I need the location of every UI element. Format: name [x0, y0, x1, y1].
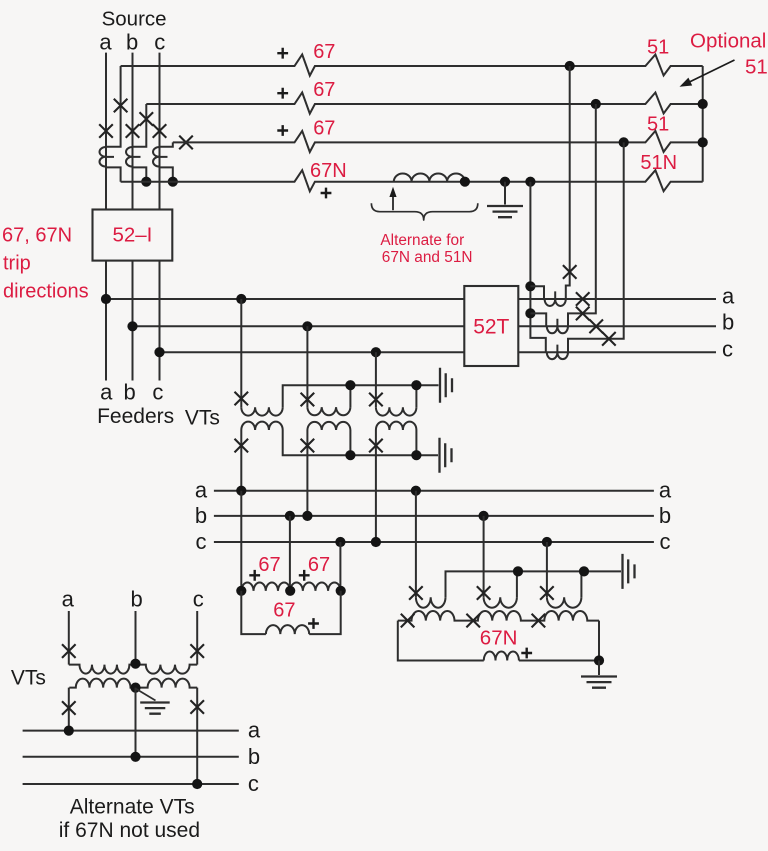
wire CT-a 52T right lead / dropper to 51-a — [566, 66, 570, 299]
svg-text:c: c — [660, 529, 671, 554]
node bus c at breaker — [154, 347, 164, 357]
polarity X phase a — [99, 124, 113, 138]
polarity X broken-delta 1 — [401, 614, 415, 628]
svg-text:51N: 51N — [640, 152, 677, 174]
svg-text:52T: 52T — [473, 316, 509, 339]
node 51-c tap — [619, 137, 629, 147]
node sec bus a 67N lead — [411, 486, 421, 496]
node 52T CT bus tap — [525, 177, 535, 187]
wire auxVT-c lead — [546, 542, 548, 597]
wire CT-a 52T left lead — [530, 286, 544, 299]
wire 67N ground stem — [504, 182, 506, 205]
polarity X 52T CT-b lead — [576, 307, 590, 321]
node VT-b primary neutral — [345, 380, 355, 390]
svg-text:directions: directions — [3, 281, 89, 303]
svg-text:b: b — [126, 30, 138, 55]
node 51-b tap — [591, 99, 601, 109]
svg-text:51: 51 — [647, 113, 669, 135]
plus polarity 67 phase-b — [277, 88, 288, 99]
wire 67coil lead a — [240, 491, 242, 591]
wire 67coil lead c — [339, 542, 341, 591]
auxVT-a primary winding — [416, 597, 446, 608]
wire right return bus — [702, 66, 704, 182]
wire CT-c 52T right lead / dropper to 51-c — [568, 142, 624, 352]
node 67coil b — [285, 586, 295, 596]
wire auxVT-a lead — [415, 491, 417, 598]
ground VT primary neutral — [440, 368, 452, 403]
altVT secondary winding — [69, 679, 197, 688]
polarity X 52T CT-a lead — [563, 265, 577, 279]
polarity X on 67 phase-c line — [179, 136, 193, 150]
plus polarity 67N — [321, 188, 332, 199]
svg-text:c: c — [196, 529, 207, 554]
svg-text:b: b — [130, 587, 142, 612]
node VT-c primary neutral — [411, 380, 421, 390]
polarity X altVT-a primary — [62, 644, 76, 658]
polarity X altVT-c secondary — [190, 700, 204, 714]
node sec bus b VT lead — [302, 511, 312, 521]
svg-text:b: b — [195, 503, 207, 528]
polarity X phase b — [126, 124, 140, 138]
wire CT-a return lead — [106, 167, 121, 181]
wire CT-c return lead — [160, 167, 173, 181]
ground auxVT neutral — [623, 554, 635, 589]
wire 67 phase-a circuit with relay 67 contact — [121, 55, 703, 76]
node altVT secondary mid — [130, 683, 140, 693]
plus polarity 67 phase-c — [277, 125, 288, 136]
svg-text:if 67N not used: if 67N not used — [59, 819, 200, 842]
node 52T CT bus upper — [525, 281, 535, 291]
wire phase b conductor — [132, 53, 134, 381]
node sec bus c 67N lead — [542, 537, 552, 547]
wire VT-a secondary lead — [240, 430, 242, 491]
node 67coil a — [236, 586, 246, 596]
wire VT-b primary lead — [306, 326, 308, 407]
polarity X altVT-c primary — [190, 644, 204, 658]
svg-text:67: 67 — [313, 41, 335, 63]
CT phase c (52T) — [547, 345, 568, 360]
wire altVT ground slant — [136, 689, 156, 701]
svg-text:b: b — [248, 744, 260, 769]
node sec bus c VT lead — [371, 537, 381, 547]
VT phase a primary winding — [241, 407, 282, 415]
svg-text:Feeders: Feeders — [97, 405, 174, 428]
svg-text:a: a — [659, 478, 672, 503]
svg-text:67: 67 — [313, 79, 335, 101]
alternate toroidal CT coil — [394, 174, 465, 182]
CT phase a (52T) — [545, 291, 566, 306]
wire 52T CT return bus — [530, 182, 545, 353]
wire altVT-b lead — [135, 611, 137, 663]
wire VT secondary neutral — [283, 430, 438, 455]
wire phase a conductor — [105, 53, 107, 381]
polarity X auxVT-b — [477, 586, 491, 600]
wire altVT sec c lead — [196, 688, 198, 784]
svg-text:52–I: 52–I — [112, 224, 152, 247]
svg-text:a: a — [722, 284, 735, 309]
svg-text:a: a — [100, 380, 113, 405]
wire bus b — [133, 325, 717, 327]
coil 67 ca — [266, 625, 309, 634]
VT phase c primary winding — [376, 407, 417, 415]
arrow polarity (alternate coil) — [392, 193, 394, 211]
plus 67N coil — [521, 648, 532, 659]
wire secondary bus c — [214, 541, 654, 543]
svg-text:c: c — [722, 337, 733, 362]
wire VT-a primary lead — [240, 299, 242, 407]
svg-text:67, 67N: 67, 67N — [2, 225, 72, 247]
polarity X bus b — [589, 320, 603, 334]
svg-text:a: a — [62, 587, 75, 612]
svg-text:a: a — [195, 478, 208, 503]
node VT tap c — [371, 347, 381, 357]
svg-text:67N: 67N — [310, 160, 347, 182]
polarity X bus a — [576, 292, 590, 306]
wire CT-b 52T left lead — [530, 313, 546, 326]
node sec bus b 67N lead — [479, 511, 489, 521]
wire 67N residual circuit with relay 67N — [121, 170, 703, 191]
wire secondary bus a — [214, 490, 654, 492]
node 51-a tap — [565, 61, 575, 71]
svg-text:67: 67 — [258, 554, 280, 576]
polarity X phase c — [153, 124, 167, 138]
auxVT broken-delta secondary windings — [398, 611, 599, 621]
node alt bus b — [130, 752, 140, 762]
wire broken-delta ground stem — [598, 661, 600, 676]
svg-text:67: 67 — [308, 554, 330, 576]
node alt bus c — [192, 779, 202, 789]
wire CT-b return lead — [133, 167, 147, 181]
svg-text:b: b — [659, 503, 671, 528]
auxVT-c primary winding — [547, 597, 582, 608]
CT phase b (52T) — [547, 319, 568, 334]
CT phase a (52-I) — [99, 147, 114, 167]
svg-text:b: b — [123, 380, 135, 405]
plus polarity 67 phase-a — [277, 48, 288, 59]
node VT-b secondary neutral — [345, 450, 355, 460]
svg-text:67N: 67N — [480, 627, 518, 650]
polarity X VT-c primary — [369, 393, 383, 407]
altVT primary winding — [69, 665, 197, 674]
node 67N ground tap — [500, 177, 510, 187]
wire CT-b 52T right lead / dropper to 51-b — [568, 104, 596, 326]
svg-text:51: 51 — [647, 36, 669, 58]
node sec bus c 67coil lead — [335, 537, 345, 547]
svg-text:VTs: VTs — [185, 407, 220, 430]
wire alt bus b — [23, 756, 239, 758]
plus 67coil bc — [299, 570, 310, 581]
VT phase c secondary winding — [376, 422, 417, 430]
node altVT primary mid — [130, 659, 140, 669]
plus 67coil ca — [308, 618, 319, 629]
node 67coil c — [336, 586, 346, 596]
polarity X CT-b lead — [140, 112, 154, 126]
plus 67coil ab — [249, 570, 260, 581]
wire VT primary neutral — [283, 385, 439, 407]
wire phase c conductor — [159, 53, 161, 381]
svg-text:c: c — [154, 30, 165, 55]
breaker 52-I box — [93, 210, 173, 261]
auxVT-b primary winding — [484, 597, 517, 608]
wire auxVT neutral link — [446, 571, 622, 597]
svg-text:a: a — [99, 30, 112, 55]
node alt bus a — [64, 726, 74, 736]
wire 67 phase-b circuit with relay 67 contact — [146, 93, 702, 114]
svg-text:trip: trip — [3, 253, 31, 275]
polarity X broken-delta 3 — [532, 614, 546, 628]
wire VT-b secondary lead — [306, 430, 308, 516]
wire VT-c primary lead — [375, 352, 377, 407]
wire 67 phase-c circuit with relay 67 contact — [173, 131, 703, 152]
node broken-delta ground — [594, 655, 604, 665]
svg-text:a: a — [248, 718, 261, 743]
wire CT-b secondary lead to 67 line — [133, 104, 147, 147]
svg-text:Alternate for: Alternate for — [380, 232, 464, 249]
svg-text:51: 51 — [745, 55, 768, 78]
polarity X VT-b primary — [301, 393, 315, 407]
svg-text:67: 67 — [273, 600, 295, 622]
VT phase b primary winding — [307, 407, 350, 415]
polarity X 52T CT-c lead — [602, 332, 616, 346]
svg-text:c: c — [193, 587, 204, 612]
svg-text:Alternate VTs: Alternate VTs — [70, 795, 195, 818]
ground on 67N circuit — [487, 206, 523, 217]
wire CT-c secondary lead to 67 line — [160, 142, 173, 146]
node sec bus b 67coil lead — [285, 511, 295, 521]
polarity X CT-a lead — [114, 99, 128, 113]
wire altVT-c lead — [196, 611, 198, 665]
node VT tap b — [302, 321, 312, 331]
CT phase b (52-I) — [126, 147, 141, 167]
node VT-c secondary neutral — [411, 450, 421, 460]
polarity X VT-a secondary — [235, 439, 249, 453]
node bus b at breaker — [127, 321, 137, 331]
node CT-c return junction — [168, 177, 178, 187]
node right bus at 67-c — [698, 137, 708, 147]
wire broken-delta loop — [398, 621, 599, 661]
svg-text:67: 67 — [313, 117, 335, 139]
wire bus a — [106, 298, 716, 300]
coil 67 bc — [290, 582, 341, 590]
node CT-b return junction — [141, 177, 151, 187]
polarity X auxVT-a — [409, 586, 423, 600]
ground VT secondary neutral — [440, 438, 452, 473]
wire auxVT-b lead — [483, 516, 485, 597]
VT phase a secondary winding — [241, 422, 282, 430]
node alternate coil right end — [460, 177, 470, 187]
polarity X VT-a primary — [235, 392, 249, 406]
polarity X broken-delta 2 — [466, 614, 480, 628]
coil 67 ab — [241, 582, 290, 590]
node bus a at breaker — [101, 294, 111, 304]
polarity X altVT-a secondary — [62, 701, 76, 715]
svg-text:c: c — [248, 771, 259, 796]
breaker 52T box — [464, 286, 518, 366]
wire altVT sec a lead — [68, 688, 70, 731]
wire alt bus a — [23, 730, 239, 732]
svg-text:VTs: VTs — [11, 667, 46, 690]
VT phase b secondary winding — [307, 422, 350, 430]
wire VT-c secondary lead — [375, 430, 377, 542]
node 52T CT bus lower — [525, 308, 535, 318]
ground altVT secondary — [140, 703, 170, 714]
polarity X VT-b secondary — [301, 439, 315, 453]
wire altVT-a lead — [68, 611, 70, 665]
wire CT-a secondary lead to 67 line — [106, 66, 121, 147]
wire bus c — [160, 351, 717, 353]
brace alternate note — [371, 203, 477, 220]
svg-text:Source: Source — [102, 8, 167, 31]
svg-text:Optional: Optional — [690, 29, 766, 52]
wire 67 third coil loop — [241, 591, 340, 634]
svg-text:67N and 51N: 67N and 51N — [382, 249, 473, 266]
arrow to optional 51 — [688, 60, 735, 83]
node right bus at 67-b — [698, 99, 708, 109]
node auxVT-b neutral — [513, 566, 523, 576]
wire alt bus c — [23, 783, 239, 785]
CT phase c (52-I) — [153, 147, 168, 167]
node sec bus a VT lead — [236, 486, 246, 496]
coil relay 67N polarizing — [484, 652, 519, 661]
node auxVT-c neutral — [579, 566, 589, 576]
wire 67coil lead b — [289, 516, 291, 591]
node VT tap a — [236, 294, 246, 304]
polarity X VT-c secondary — [369, 439, 383, 453]
svg-text:c: c — [152, 380, 163, 405]
ground broken delta — [581, 677, 617, 688]
wire altVT sec b lead — [135, 688, 137, 757]
wire secondary bus b — [214, 515, 654, 517]
polarity X auxVT-c — [540, 586, 554, 600]
svg-text:b: b — [722, 310, 734, 335]
